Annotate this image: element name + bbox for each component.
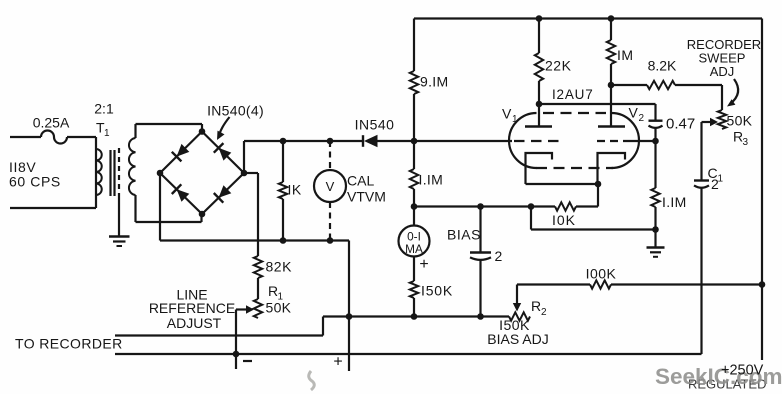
wire grid line to tube V1 <box>414 140 512 142</box>
resistor 9.1M <box>413 19 415 72</box>
node bridge top <box>199 128 206 135</box>
capacitor C1 2 <box>694 179 709 181</box>
transformer T1 shield (dashed) <box>118 148 120 196</box>
node 10K left junction <box>528 203 535 210</box>
potentiometer R1 50K <box>254 299 262 318</box>
svg-text:IM: IM <box>617 47 634 63</box>
wire cathode join <box>526 183 599 185</box>
ground (cathode divider) <box>654 230 656 248</box>
wire recorder - terminal <box>235 310 237 370</box>
bridge rectifier frame <box>160 132 202 174</box>
svg-text:VTVM: VTVM <box>347 189 386 205</box>
wire R3 wiper to C1 <box>700 122 702 180</box>
capacitor 2 (bias filter) <box>479 207 481 253</box>
node 1K bottom <box>280 237 287 244</box>
svg-text:3: 3 <box>743 137 749 148</box>
wire secondary bottom to bridge <box>136 221 202 223</box>
resistor 150K <box>413 257 415 282</box>
svg-text:V: V <box>629 105 639 121</box>
node cap 2 bottom <box>477 313 484 320</box>
diode D4 (bottom-right) <box>219 185 232 198</box>
node bridge right <box>241 170 248 177</box>
svg-text:V: V <box>326 179 335 194</box>
svg-text:BIAS: BIAS <box>447 227 481 243</box>
node 150K bottom <box>411 313 418 320</box>
arrow sweep adj pointer <box>730 79 738 104</box>
potentiometer R2 150K <box>509 312 530 320</box>
wire positive bus y240 <box>160 239 349 241</box>
svg-text:2: 2 <box>711 176 719 192</box>
svg-text:2: 2 <box>495 248 503 264</box>
resistor 10K <box>555 202 576 210</box>
diode D1 (top-left) <box>177 144 190 157</box>
svg-text:1: 1 <box>512 114 518 125</box>
wire bridge right vertex up <box>243 141 245 173</box>
svg-text:V: V <box>502 106 512 122</box>
resistor 1M <box>610 19 612 41</box>
svg-text:TO RECORDER: TO RECORDER <box>15 336 123 352</box>
AC source 118V 60 CPS <box>10 136 41 138</box>
svg-text:CAL: CAL <box>347 173 374 189</box>
node V meter top <box>327 138 334 145</box>
node cathode bus left <box>411 203 418 210</box>
capacitor 0.47 <box>649 119 663 121</box>
wire negative line y141 <box>244 140 362 142</box>
tube V1 cathode <box>526 153 553 184</box>
svg-text:8.2K: 8.2K <box>648 58 677 74</box>
diode D3 (bottom-left) <box>177 189 190 202</box>
node 100K to +250V rail <box>759 281 766 288</box>
svg-text:82K: 82K <box>266 259 293 275</box>
node cap 2 top <box>477 203 484 210</box>
watermark artifact <box>309 371 315 390</box>
node top rail 22K <box>536 15 543 22</box>
wire R2 wiper to 100K <box>517 283 590 285</box>
svg-text:0.47: 0.47 <box>666 116 695 133</box>
resistor 22K <box>538 19 540 54</box>
svg-text:2: 2 <box>541 307 547 318</box>
arrow IN540(4) pointer <box>220 117 230 134</box>
wire bus down to bias rail <box>348 241 350 317</box>
node bias rail left <box>346 313 353 320</box>
diode D2 (top-right) <box>219 148 232 161</box>
wire bias rail <box>323 315 509 317</box>
wire V1 plate to 0.47 <box>539 103 656 105</box>
node grid bus junction <box>411 138 418 145</box>
svg-text:IN540(4): IN540(4) <box>207 103 264 119</box>
svg-text:9.IM: 9.IM <box>420 74 448 90</box>
svg-text:+250V: +250V <box>721 363 764 379</box>
node R1 wiper junction <box>233 351 240 358</box>
node cathode join <box>595 181 602 188</box>
svg-text:REFERENCE: REFERENCE <box>149 300 235 316</box>
wire top rail <box>414 17 762 19</box>
diode 1N540 <box>362 135 364 147</box>
resistor 100K <box>590 280 611 288</box>
svg-text:I.IM: I.IM <box>662 194 687 210</box>
node bridge left <box>157 170 164 177</box>
node V2 plate / 8.2K junction <box>608 82 615 89</box>
fuse F1 0.25A <box>41 131 67 144</box>
resistor 1.1M (right) <box>654 141 656 188</box>
svg-text:I00K: I00K <box>586 266 617 282</box>
label - terminal <box>243 360 252 362</box>
meter V (CAL VTVM) <box>314 170 346 202</box>
svg-text:50K: 50K <box>727 113 753 129</box>
tube V1 grid (dashed) <box>514 140 559 142</box>
node top rail 1M <box>608 15 615 22</box>
node V2 grid / 0.47 bottom <box>652 138 659 145</box>
svg-text:BIAS ADJ: BIAS ADJ <box>487 331 548 347</box>
svg-text:IN540: IN540 <box>355 117 395 133</box>
svg-text:50K: 50K <box>266 300 292 316</box>
wire C1 down to recorder line <box>700 188 702 354</box>
transformer T1 primary winding <box>95 137 97 208</box>
svg-text:22K: 22K <box>545 58 572 74</box>
svg-text:0.25A: 0.25A <box>33 115 70 131</box>
wire recorder lower line <box>115 353 702 355</box>
svg-text:2: 2 <box>639 113 645 124</box>
svg-text:MA: MA <box>405 242 423 256</box>
tube V2 grid (dashed) <box>597 140 627 142</box>
svg-text:60 CPS: 60 CPS <box>9 174 61 190</box>
tube V1 plate <box>538 104 540 127</box>
svg-text:ADJ: ADJ <box>710 64 735 79</box>
wire bridge right vertex to 82K column <box>244 172 258 174</box>
resistor 8.2K <box>611 84 647 86</box>
tube 12AU7 envelope <box>509 113 537 168</box>
meter 0-1 MA (BIAS) <box>413 207 415 227</box>
tube V2 cathode <box>598 153 626 184</box>
wire cathode bus <box>414 205 555 207</box>
resistor 1K <box>282 141 284 182</box>
node 1K top <box>280 138 287 145</box>
wire cathode down <box>597 184 599 207</box>
node bridge bottom <box>199 211 206 218</box>
wire recorder upper line <box>115 334 323 336</box>
svg-text:I2AU7: I2AU7 <box>552 87 594 102</box>
transformer T1 core <box>109 150 111 196</box>
transformer T1 secondary winding <box>129 138 136 195</box>
wire lower branch to ground <box>530 207 532 230</box>
svg-text:R: R <box>531 298 541 314</box>
svg-text:I0K: I0K <box>552 212 576 228</box>
resistor 82K <box>254 256 262 278</box>
wire +250V rail <box>761 19 763 361</box>
tube V2 plate <box>610 85 612 127</box>
resistor 1.1M (left) <box>413 141 415 169</box>
svg-text:2:1: 2:1 <box>94 101 114 117</box>
wire bridge left vertex down <box>159 173 161 241</box>
wire recorder + terminal <box>348 317 350 372</box>
node ground junction <box>652 226 659 233</box>
svg-text:ADJUST: ADJUST <box>167 315 222 331</box>
svg-text:1: 1 <box>104 128 110 139</box>
wire secondary top to bridge <box>136 123 203 125</box>
svg-text:+: + <box>419 256 428 273</box>
node V1 plate <box>536 101 543 108</box>
svg-text:IK: IK <box>288 182 302 198</box>
svg-text:I50K: I50K <box>421 283 453 299</box>
ground (transformer shield) <box>118 196 120 236</box>
svg-text:+: + <box>333 354 342 371</box>
node V meter bottom <box>327 237 334 244</box>
potentiometer R3 50K <box>721 85 723 110</box>
wire V meter dashed leads <box>329 141 331 170</box>
svg-text:I.IM: I.IM <box>419 172 444 188</box>
